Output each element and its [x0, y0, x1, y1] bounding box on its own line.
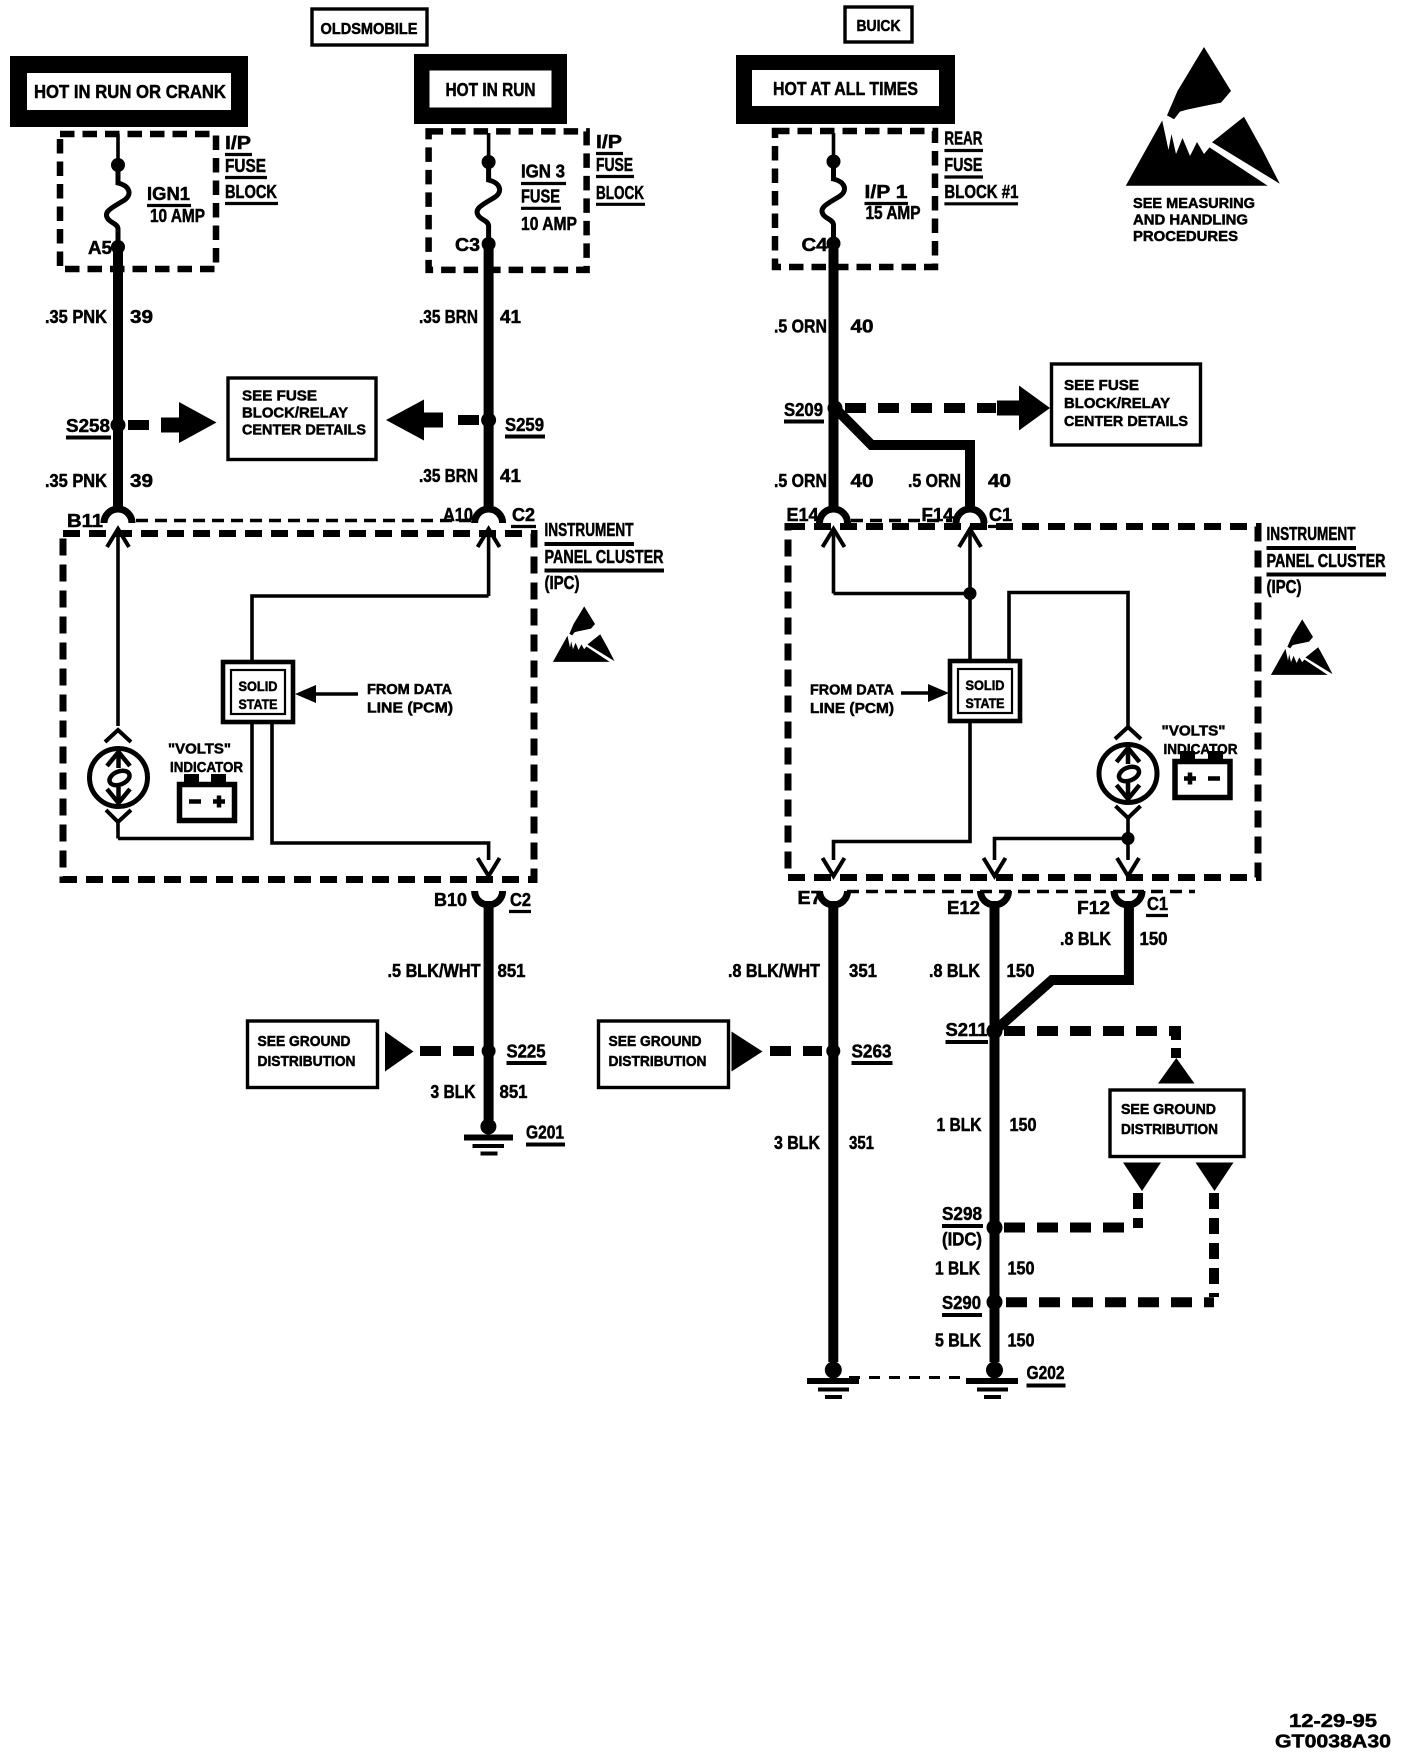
- label 1 BLK 150 (upper): [937, 1115, 1037, 1135]
- wire solid state to exit B10: [272, 722, 489, 860]
- svg-text:FUSE: FUSE: [596, 155, 633, 175]
- triangles below ground distribution box: [1123, 1163, 1161, 1192]
- wire 150 BLK (F12) with bend: [999, 901, 1129, 1027]
- wire E12 S211 to S298: [990, 1031, 1000, 1228]
- svg-text:C2: C2: [510, 890, 531, 910]
- SEE FUSE BLOCK/RELAY CENTER DETAILS box (Buick): [1052, 364, 1201, 445]
- svg-text:STATE: STATE: [239, 697, 278, 712]
- splice S263: [826, 1042, 892, 1064]
- label .35 PNK 39 (lower): [45, 471, 153, 491]
- svg-text:STATE: STATE: [966, 696, 1005, 711]
- connector cup A10: [475, 509, 503, 523]
- label "VOLTS" INDICATOR (left): [168, 742, 243, 777]
- label G201: [526, 1123, 565, 1145]
- label G202: [1027, 1363, 1066, 1386]
- svg-text:FROM DATA: FROM DATA: [367, 682, 453, 698]
- svg-text:3 BLK: 3 BLK: [431, 1082, 476, 1102]
- svg-text:10 AMP: 10 AMP: [521, 214, 577, 234]
- svg-text:851: 851: [500, 1082, 528, 1102]
- svg-text:DISTRIBUTION: DISTRIBUTION: [1121, 1122, 1218, 1138]
- svg-text:5 BLK: 5 BLK: [935, 1331, 981, 1351]
- svg-text:B11: B11: [67, 511, 103, 531]
- svg-text:39: 39: [130, 307, 153, 327]
- svg-text:41: 41: [500, 466, 521, 486]
- label INSTRUMENT PANEL CLUSTER (IPC) left: [545, 520, 665, 593]
- svg-text:C2: C2: [512, 505, 535, 525]
- svg-text:.5 ORN: .5 ORN: [774, 471, 827, 491]
- HOT IN RUN OR CRANK header: [10, 56, 248, 127]
- fuse I/P 1 15 AMP: [822, 133, 845, 251]
- splice S225: [482, 1042, 547, 1064]
- exit arrow B10: [478, 858, 500, 876]
- label I/P 1 15 AMP: [865, 182, 921, 223]
- svg-text:C4: C4: [802, 235, 828, 255]
- I/P fuse block (mid) dashed box: [429, 131, 587, 270]
- dashed lead S259 to arrow: [450, 415, 479, 425]
- dashed path right triangle to S290: [1006, 1193, 1214, 1302]
- splice S209: [784, 400, 843, 422]
- svg-text:"VOLTS": "VOLTS": [168, 742, 231, 758]
- svg-text:41: 41: [500, 307, 521, 327]
- label I/P FUSE BLOCK (left): [225, 133, 278, 204]
- svg-text:BLOCK #1: BLOCK #1: [944, 182, 1018, 202]
- svg-text:(IDC): (IDC): [942, 1230, 982, 1250]
- svg-text:SEE FUSE: SEE FUSE: [242, 389, 317, 405]
- Instrument Panel Cluster (Oldsmobile) dashed box: [63, 534, 534, 880]
- connector cup B10: [475, 891, 503, 905]
- FROM DATA LINE (PCM) pointer (left diagram): [295, 682, 453, 717]
- fuse IGN1 10 AMP: [106, 134, 129, 254]
- label IGN 3 FUSE 10 AMP: [521, 162, 577, 234]
- svg-text:I/P 1: I/P 1: [865, 182, 908, 202]
- svg-text:G202: G202: [1027, 1363, 1065, 1383]
- label 3 BLK 351: [774, 1133, 874, 1153]
- svg-text:.35 BRN: .35 BRN: [419, 307, 478, 327]
- svg-text:150: 150: [1008, 1259, 1035, 1279]
- dashed path left triangle to S298: [1004, 1193, 1138, 1228]
- BUICK title box: [845, 7, 912, 42]
- svg-text:S298: S298: [942, 1204, 982, 1224]
- volts gauge (Oldsmobile): [90, 730, 148, 839]
- arrow from box to S225: [385, 1032, 414, 1072]
- label .5 BLK/WHT 851: [388, 961, 526, 981]
- volts gauge (Buick): [1099, 727, 1157, 818]
- svg-text:G201: G201: [526, 1123, 564, 1143]
- label 5 BLK 150: [935, 1331, 1035, 1351]
- wire S290 to G202: [990, 1302, 1000, 1362]
- solid state box (Buick): [950, 661, 1020, 721]
- svg-text:BLOCK: BLOCK: [596, 183, 644, 203]
- svg-text:10 AMP: 10 AMP: [150, 206, 205, 226]
- svg-text:.5 ORN: .5 ORN: [908, 471, 961, 491]
- ESD symbol (large, top right): [1126, 47, 1280, 186]
- svg-text:DISTRIBUTION: DISTRIBUTION: [609, 1054, 707, 1070]
- svg-text:FUSE: FUSE: [944, 155, 982, 175]
- label .8 BLK/WHT 351: [728, 961, 877, 981]
- splice S290: [942, 1293, 1003, 1315]
- svg-text:BLOCK/RELAY: BLOCK/RELAY: [242, 406, 348, 422]
- svg-text:INDICATOR: INDICATOR: [1164, 742, 1238, 758]
- svg-text:851: 851: [498, 961, 526, 981]
- svg-text:FROM DATA: FROM DATA: [810, 683, 895, 699]
- svg-text:"VOLTS": "VOLTS": [1162, 724, 1226, 740]
- svg-text:.8 BLK: .8 BLK: [1060, 929, 1111, 949]
- footer date code: [1275, 1711, 1391, 1752]
- HOT AT ALL TIMES header: [736, 55, 955, 124]
- label .35 BRN 41 (lower): [419, 466, 521, 486]
- wire 351 BLK to ground: [828, 1051, 838, 1362]
- connector dashed line C1 bottom: [847, 890, 1195, 894]
- dashed lead to S263: [770, 1046, 822, 1056]
- svg-text:SEE GROUND: SEE GROUND: [1121, 1102, 1216, 1118]
- label I/P FUSE BLOCK (mid): [596, 132, 645, 204]
- solid state box (Oldsmobile): [223, 662, 293, 722]
- fuse IGN 3 10 AMP: [477, 133, 500, 251]
- rear fuse block dashed box: [775, 131, 935, 267]
- svg-text:INSTRUMENT: INSTRUMENT: [1267, 524, 1356, 544]
- wire 851 BLK to ground: [484, 1051, 494, 1120]
- wire 851 BLK/WHT: [484, 901, 494, 1046]
- svg-text:LINE (PCM): LINE (PCM): [810, 701, 894, 717]
- wire junction to exit E12: [995, 839, 1129, 861]
- entry arrow A10: [478, 529, 500, 596]
- splice S298 (IDC): [942, 1204, 1003, 1250]
- junction dot F14 line: [964, 587, 977, 600]
- svg-text:3 BLK: 3 BLK: [774, 1133, 820, 1153]
- connector C1 label (bottom): [1146, 894, 1168, 916]
- wire 351 BLK/WHT: [828, 901, 838, 1046]
- svg-text:S211: S211: [946, 1020, 988, 1040]
- svg-text:150: 150: [1007, 961, 1035, 981]
- svg-text:1 BLK: 1 BLK: [935, 1259, 980, 1279]
- svg-text:351: 351: [849, 1133, 874, 1153]
- label .35 PNK 39 (upper): [45, 307, 153, 327]
- arrow from box to S263: [732, 1032, 763, 1072]
- svg-text:CENTER DETAILS: CENTER DETAILS: [1064, 414, 1188, 430]
- wire gauge to junction dot: [1126, 816, 1130, 839]
- svg-text:REAR: REAR: [944, 129, 982, 149]
- arrow to fuse details box (left pointing): [386, 400, 443, 441]
- label IGN1 10 AMP: [147, 184, 205, 226]
- HOT IN RUN header (mid): [414, 54, 567, 124]
- connector cup B11: [104, 509, 132, 523]
- connector C2 label (bottom): [509, 890, 531, 912]
- svg-text:OLDSMOBILE: OLDSMOBILE: [321, 21, 418, 38]
- svg-text:IGN1: IGN1: [147, 184, 190, 204]
- dashed link between grounds: [849, 1376, 966, 1379]
- connector cup E7: [820, 891, 848, 905]
- svg-text:150: 150: [1140, 929, 1168, 949]
- wire solid state to exit E7: [834, 721, 971, 860]
- battery icon (right): [1175, 751, 1230, 798]
- svg-text:PANEL CLUSTER: PANEL CLUSTER: [1267, 551, 1386, 571]
- svg-text:PANEL CLUSTER: PANEL CLUSTER: [545, 547, 664, 567]
- label INSTRUMENT PANEL CLUSTER (IPC) right: [1267, 524, 1387, 597]
- FROM DATA LINE (PCM) pointer (right diagram): [810, 683, 949, 718]
- svg-text:HOT IN RUN: HOT IN RUN: [446, 80, 536, 100]
- connector cup E12: [981, 891, 1009, 905]
- label SEE MEASURING AND HANDLING PROCEDURES: [1133, 196, 1255, 245]
- ESD symbol (small, Oldsmobile IPC): [553, 606, 615, 661]
- svg-text:C1: C1: [1147, 894, 1168, 914]
- dashed S211 to ground distribution: [1004, 1026, 1195, 1084]
- svg-text:DISTRIBUTION: DISTRIBUTION: [258, 1054, 356, 1070]
- svg-text:SOLID: SOLID: [966, 678, 1005, 693]
- ground G201: [464, 1119, 513, 1154]
- svg-text:E14: E14: [787, 505, 819, 525]
- svg-text:SEE MEASURING: SEE MEASURING: [1133, 196, 1255, 212]
- svg-text:351: 351: [849, 961, 877, 981]
- svg-text:E12: E12: [947, 898, 980, 918]
- svg-text:1 BLK: 1 BLK: [937, 1115, 982, 1135]
- arrow to fuse details box (right pointing): [161, 402, 217, 443]
- splice S259: [481, 413, 545, 437]
- connector dashed line C1 top: [851, 519, 952, 523]
- entry arrow E14: [823, 529, 845, 594]
- ground (E7 branch): [807, 1362, 859, 1398]
- wire junction to exit F12: [1126, 839, 1130, 861]
- wire 40 ORN upper: [829, 249, 839, 506]
- label .8 BLK 150 (F12): [1060, 929, 1168, 949]
- svg-text:S259: S259: [505, 415, 544, 435]
- splice S211: [946, 1020, 1003, 1042]
- svg-text:SEE GROUND: SEE GROUND: [258, 1034, 351, 1050]
- svg-text:(IPC): (IPC): [1267, 577, 1302, 597]
- svg-text:40: 40: [851, 471, 874, 491]
- dashed lead S258 to arrow: [128, 420, 160, 430]
- ground G202: [966, 1362, 1018, 1398]
- battery icon (left): [180, 774, 235, 821]
- svg-text:.35 BRN: .35 BRN: [419, 466, 478, 486]
- svg-text:INDICATOR: INDICATOR: [170, 760, 243, 776]
- svg-text:S263: S263: [852, 1042, 892, 1062]
- svg-text:I/P: I/P: [225, 133, 251, 153]
- branch wire S209 to F14: [835, 408, 970, 506]
- dashed lead S209 to arrow: [845, 403, 996, 413]
- svg-text:.35 PNK: .35 PNK: [45, 307, 107, 327]
- svg-text:B10: B10: [434, 890, 467, 910]
- wire S298 to S290: [990, 1228, 1000, 1303]
- svg-text:BLOCK: BLOCK: [225, 182, 277, 202]
- svg-text:A5: A5: [88, 238, 112, 258]
- svg-text:(IPC): (IPC): [545, 573, 580, 593]
- ESD symbol (small, Buick IPC): [1271, 619, 1333, 674]
- svg-text:F12: F12: [1077, 898, 1110, 918]
- svg-text:HOT AT ALL TIMES: HOT AT ALL TIMES: [773, 79, 918, 99]
- svg-text:.8 BLK/WHT: .8 BLK/WHT: [728, 961, 820, 981]
- svg-text:GT0038A30: GT0038A30: [1275, 1732, 1391, 1752]
- svg-text:FUSE: FUSE: [225, 156, 266, 176]
- svg-text:S209: S209: [784, 400, 823, 420]
- connector cup F14: [956, 509, 984, 523]
- svg-text:INSTRUMENT: INSTRUMENT: [545, 520, 634, 540]
- label .5 ORN 40 (upper): [774, 317, 874, 337]
- svg-text:I/P: I/P: [596, 132, 622, 152]
- svg-text:.8 BLK: .8 BLK: [929, 961, 980, 981]
- svg-text:PROCEDURES: PROCEDURES: [1133, 229, 1238, 245]
- svg-text:40: 40: [851, 317, 874, 337]
- wire 150 BLK (E12): [990, 901, 1000, 1026]
- svg-text:S258: S258: [66, 416, 110, 436]
- label .8 BLK 150 (E12): [929, 961, 1035, 981]
- label "VOLTS" INDICATOR (right): [1162, 724, 1238, 759]
- connector dashed line C2 top: [136, 519, 471, 523]
- entry arrow B11: [107, 529, 129, 726]
- wire E14 to junction: [834, 592, 971, 596]
- svg-text:39: 39: [130, 471, 153, 491]
- splice S258: [66, 416, 126, 438]
- svg-text:40: 40: [988, 471, 1011, 491]
- label 3 BLK 851: [431, 1082, 528, 1102]
- svg-text:12-29-95: 12-29-95: [1289, 1711, 1377, 1731]
- connector C1 label (top): [988, 505, 1013, 527]
- arrow to fuse details box (right pointing, Buick): [997, 386, 1050, 431]
- svg-text:BUICK: BUICK: [857, 18, 901, 35]
- svg-text:SEE FUSE: SEE FUSE: [1064, 378, 1139, 394]
- SEE GROUND DISTRIBUTION box (Buick left): [599, 1021, 729, 1088]
- connector C2 label (top): [511, 505, 536, 527]
- wire gauge to junction: [118, 722, 252, 839]
- svg-text:S290: S290: [942, 1293, 981, 1313]
- svg-text:AND HANDLING: AND HANDLING: [1133, 213, 1248, 229]
- wire A10 to solid state: [252, 596, 489, 662]
- label .5 ORN 40 (lower left): [774, 471, 874, 491]
- wire 41 BRN upper: [484, 249, 494, 506]
- svg-text:BLOCK/RELAY: BLOCK/RELAY: [1064, 396, 1170, 412]
- svg-text:SOLID: SOLID: [239, 679, 278, 694]
- I/P fuse block (Oldsmobile) dashed box: [60, 134, 216, 269]
- svg-text:LINE (PCM): LINE (PCM): [367, 701, 453, 717]
- connector cup E14: [820, 509, 848, 523]
- svg-text:.5 ORN: .5 ORN: [774, 317, 827, 337]
- label .35 BRN 41 (upper): [419, 307, 521, 327]
- label 1 BLK 150 (lower): [935, 1259, 1035, 1279]
- wire 39 PNK upper: [113, 252, 123, 506]
- svg-text:.35 PNK: .35 PNK: [45, 471, 107, 491]
- svg-text:SEE GROUND: SEE GROUND: [609, 1034, 702, 1050]
- svg-text:150: 150: [1008, 1331, 1035, 1351]
- svg-text:C1: C1: [989, 505, 1012, 525]
- svg-text:15 AMP: 15 AMP: [866, 203, 921, 223]
- SEE FUSE BLOCK/RELAY CENTER DETAILS box (Oldsmobile): [228, 378, 376, 460]
- svg-text:C3: C3: [455, 235, 480, 255]
- svg-text:150: 150: [1010, 1115, 1037, 1135]
- label REAR FUSE BLOCK #1: [944, 129, 1018, 204]
- svg-text:HOT IN RUN OR CRANK: HOT IN RUN OR CRANK: [34, 82, 226, 102]
- SEE GROUND DISTRIBUTION box (Oldsmobile): [248, 1021, 378, 1088]
- wire solid state top to gauge: [1009, 593, 1128, 728]
- connector cup F12: [1114, 891, 1142, 905]
- entry arrow F14: [959, 529, 981, 661]
- svg-text:FUSE: FUSE: [521, 187, 560, 207]
- SEE GROUND DISTRIBUTION box (Buick right): [1110, 1090, 1244, 1157]
- svg-text:IGN 3: IGN 3: [521, 162, 565, 182]
- Instrument Panel Cluster (Buick) dashed box: [788, 527, 1258, 878]
- dashed lead to S225: [420, 1046, 478, 1056]
- svg-text:.5 BLK/WHT: .5 BLK/WHT: [388, 961, 481, 981]
- svg-text:CENTER DETAILS: CENTER DETAILS: [242, 423, 366, 439]
- label .5 ORN 40 (lower right): [908, 471, 1011, 491]
- OLDSMOBILE title box: [312, 9, 427, 45]
- svg-text:S225: S225: [507, 1042, 546, 1062]
